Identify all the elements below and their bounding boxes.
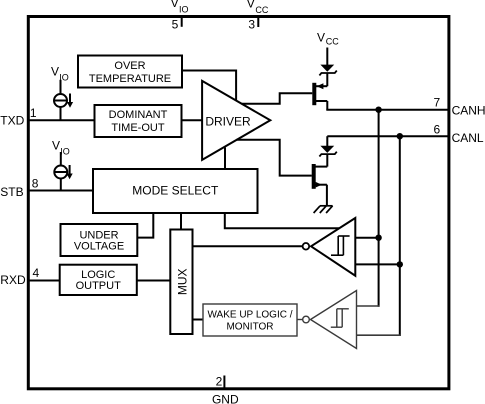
pin 5 VIO tick	[181, 17, 183, 27]
receiver amp U2	[311, 218, 355, 276]
svg-text:CC: CC	[326, 37, 339, 47]
chip boundary box	[28, 17, 449, 389]
transistor Q2 low-side	[312, 164, 316, 189]
current source I1 arrowhead	[67, 102, 73, 108]
svg-text:IO: IO	[59, 72, 69, 82]
mux block	[170, 230, 192, 335]
svg-text:V: V	[171, 0, 179, 10]
wire STB to mode select	[29, 190, 93, 192]
svg-text:RXD: RXD	[0, 273, 26, 287]
svg-text:5: 5	[172, 18, 179, 32]
svg-text:TIME-OUT: TIME-OUT	[111, 122, 164, 134]
svg-text:VOLTAGE: VOLTAGE	[74, 241, 124, 253]
svg-text:MONITOR: MONITOR	[226, 322, 273, 333]
svg-text:3: 3	[248, 18, 255, 32]
wire receiver input from CANL	[355, 263, 400, 265]
svg-text:V: V	[247, 0, 255, 10]
svg-text:IO: IO	[60, 146, 70, 156]
svg-text:GND: GND	[212, 393, 239, 404]
svg-text:CANH: CANH	[452, 103, 485, 117]
svg-text:WAKE UP LOGIC /: WAKE UP LOGIC /	[207, 310, 292, 321]
logic output block	[60, 265, 137, 295]
svg-text:7: 7	[434, 95, 441, 109]
svg-text:TEMPERATURE: TEMPERATURE	[89, 73, 171, 85]
svg-text:CANL: CANL	[452, 131, 484, 145]
wake receiver amp U3	[311, 291, 357, 349]
driver amp U1	[202, 81, 270, 160]
wire CANL vertical	[399, 136, 401, 336]
hysteresis symbol U2	[331, 236, 350, 255]
wire dominant time-out to driver	[182, 119, 203, 121]
hysteresis symbol U3	[331, 309, 349, 327]
ground	[314, 206, 333, 213]
wire receiver input from CANH	[355, 237, 378, 239]
wire under voltage to mode select	[137, 213, 153, 238]
node CANL junction	[397, 133, 403, 139]
wire mode select to mux	[180, 213, 182, 230]
svg-text:V: V	[317, 31, 325, 45]
zener diode D2	[320, 146, 334, 153]
svg-text:6: 6	[434, 123, 441, 137]
svg-text:STB: STB	[0, 185, 23, 199]
svg-text:UNDER: UNDER	[79, 229, 118, 241]
wire wake receiver input lower	[357, 334, 401, 336]
pin 3 VCC tick	[257, 17, 259, 27]
svg-text:MODE SELECT: MODE SELECT	[132, 184, 219, 198]
svg-text:TXD: TXD	[0, 114, 24, 128]
current source I2 arrowhead	[67, 174, 73, 180]
svg-text:OVER: OVER	[114, 60, 145, 72]
current source I2 on STB (VIO pull-up)	[54, 152, 69, 191]
svg-text:MUX: MUX	[175, 268, 189, 295]
under voltage block	[61, 224, 138, 256]
node CANH junction	[375, 107, 381, 113]
wire D1 to Q1	[326, 73, 328, 86]
svg-text:V: V	[51, 64, 59, 78]
dominant time-out block	[95, 105, 182, 137]
wire receiver to mux	[193, 245, 303, 247]
wake up logic / monitor block	[203, 304, 303, 336]
wire RXD to logic output	[29, 280, 60, 282]
svg-text:OUTPUT: OUTPUT	[76, 280, 122, 292]
current source I1 on TXD (VIO pull-up)	[54, 80, 70, 120]
svg-text:8: 8	[32, 177, 39, 191]
wire TXD to dominant time-out	[29, 119, 95, 121]
svg-text:1: 1	[30, 106, 37, 120]
wire VCC to diode D1	[326, 48, 328, 66]
node receiver CANL junction	[397, 261, 403, 267]
over temperature block	[78, 56, 182, 88]
wake receiver bubble	[303, 316, 310, 323]
receiver inverter bubble	[303, 243, 310, 250]
wire logic output to mux	[137, 280, 171, 282]
mode select block	[93, 169, 258, 213]
wire driver to mode select	[224, 148, 226, 170]
zener diode D1	[320, 65, 334, 72]
wire mode select to receiver enable	[225, 213, 339, 228]
CANH wire	[326, 109, 447, 111]
svg-text:V: V	[52, 138, 60, 152]
wire D2 to Q2	[326, 154, 328, 167]
svg-text:2: 2	[216, 375, 223, 389]
wire over temperature to driver	[182, 71, 236, 101]
wire CANL to diode D2	[326, 136, 328, 146]
wire driver to low-side gate	[236, 140, 311, 176]
wire CANH vertical	[378, 110, 380, 307]
wire wake receiver input upper	[357, 305, 380, 307]
svg-text:IO: IO	[179, 4, 189, 14]
svg-text:CC: CC	[255, 5, 268, 15]
node receiver CANH junction	[375, 235, 381, 241]
svg-text:DOMINANT: DOMINANT	[109, 109, 168, 121]
CANL wire	[327, 135, 447, 137]
transistor Q1 high-side	[312, 83, 316, 105]
wire driver to high-side gate	[242, 93, 313, 103]
svg-text:DRIVER: DRIVER	[205, 114, 251, 128]
wire mux to wake up logic	[193, 319, 204, 321]
svg-text:LOGIC: LOGIC	[81, 269, 115, 281]
wire Q2 to ground	[326, 185, 328, 206]
svg-text:4: 4	[33, 266, 40, 280]
pin 2 GND tick	[223, 376, 225, 388]
